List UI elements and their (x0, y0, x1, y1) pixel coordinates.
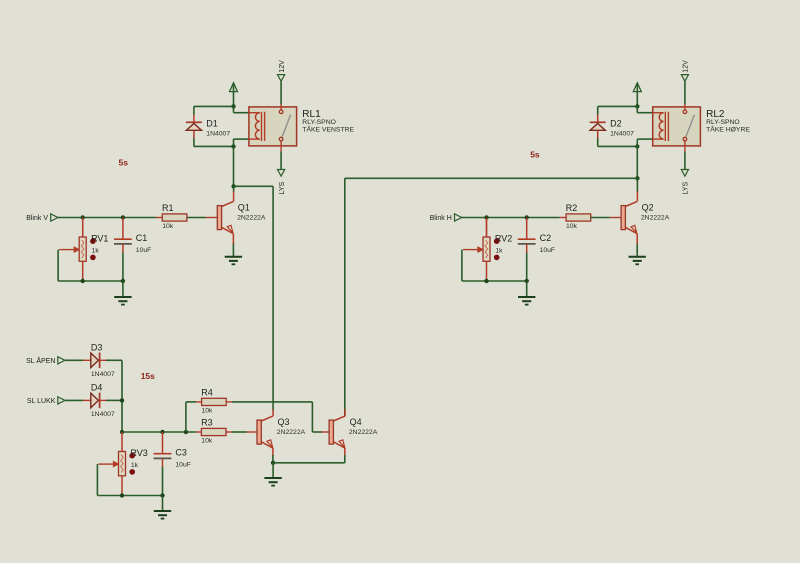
resistor R3 (201, 418, 226, 445)
pot RV3 1k body (119, 452, 126, 476)
svg-text:D1: D1 (206, 118, 218, 128)
pot RV3 pin bottom (121, 476, 123, 496)
svg-text:R2: R2 (566, 203, 578, 213)
junction RV3 bottom (120, 493, 124, 497)
svg-text:C1: C1 (136, 233, 148, 243)
wire coil top bend (637, 106, 652, 112)
junction collector node Q1 (231, 184, 235, 188)
pin Q2 emitter (636, 234, 638, 245)
svg-text:12V: 12V (279, 60, 286, 73)
wire top node to diode D2 (598, 105, 638, 107)
svg-text:2N2222A: 2N2222A (277, 429, 306, 436)
capacitor C1 pin bottom (122, 244, 124, 253)
capacitor C3 pin top (162, 432, 164, 454)
wire R3 to Q3 base (232, 431, 247, 433)
wire bottom rail RV2 (487, 280, 527, 282)
pin Q3 emitter (272, 448, 274, 456)
pin Q4 emitter (344, 448, 346, 456)
wire C2 bottom (526, 253, 528, 282)
junction collector node Q2 (635, 176, 639, 180)
pin R1 left (156, 217, 162, 219)
pin Q1 base (206, 217, 217, 219)
wire bottom rail RV1 (83, 280, 123, 282)
pot RV3 pin top (121, 432, 123, 452)
svg-text:TÅKE VENSTRE: TÅKE VENSTRE (302, 125, 354, 134)
ground below Q2 (629, 257, 646, 265)
pin R3 right (226, 431, 232, 433)
wire SL ÅPEN to D3 (65, 359, 83, 361)
relay RL1 switch (279, 104, 290, 152)
svg-text:D2: D2 (610, 118, 622, 128)
wire C3 bottom (162, 467, 164, 496)
svg-text:10k: 10k (201, 438, 213, 445)
diode D1 pin top (193, 106, 195, 122)
terminal 12V above RL1 (278, 60, 286, 104)
power terminal PWR RL2 (633, 83, 641, 107)
terminal LYS below RL1 (278, 152, 286, 195)
relay RL1 coil (249, 112, 265, 141)
svg-text:1N4007: 1N4007 (610, 130, 634, 137)
terminal LYS below RL2 (681, 152, 689, 195)
pot RV3 labels (130, 448, 147, 469)
power terminal PWR RL1 (230, 83, 238, 107)
wire R4 riser (186, 402, 196, 432)
wire Q3 emitter to ground node (272, 455, 274, 463)
svg-text:LYS: LYS (683, 181, 690, 194)
svg-text:Blink V: Blink V (26, 215, 48, 222)
svg-text:2N2222A: 2N2222A (237, 214, 266, 221)
junction bottom coil node RL1 (231, 144, 235, 148)
pin D4 cathode (100, 399, 106, 401)
wire RV2 top tap (486, 218, 488, 238)
svg-text:LYS: LYS (279, 181, 286, 194)
pin Q4 collector (344, 409, 346, 416)
wire Q4 emitter to emitter node (273, 455, 345, 463)
diode D2 pin top (597, 106, 599, 122)
relay RL2 labels (706, 109, 750, 134)
transistor Q1 2N2222A (217, 201, 266, 233)
svg-text:SL LUKK: SL LUKK (27, 398, 56, 405)
svg-text:5s: 5s (119, 157, 129, 167)
junction top node RL1 (231, 104, 235, 108)
diode D2 pin bottom (597, 130, 599, 146)
wire relay node down to collector node (636, 146, 638, 178)
junction bottom coil node RL2 (635, 144, 639, 148)
pin Q2 base (610, 217, 621, 219)
transistor Q2 2N2222A (621, 201, 670, 233)
wire to ground below C2 (526, 281, 528, 297)
pin Q1 emitter (232, 234, 234, 245)
svg-text:RLY-SPNO: RLY-SPNO (302, 119, 336, 126)
wire wiper loop of RV2 (462, 250, 487, 281)
relay RL2 coil (653, 112, 669, 141)
relay RL2 body (653, 107, 701, 146)
svg-text:Q1: Q1 (238, 202, 250, 212)
svg-text:RL2: RL2 (706, 109, 725, 120)
wire top node to diode D1 (194, 105, 234, 107)
pin D4 anode (83, 399, 91, 401)
pin D3 anode (83, 359, 91, 361)
wire RV1 top tap (82, 218, 84, 238)
svg-text:TÅKE HØYRE: TÅKE HØYRE (706, 125, 750, 134)
ground below C2 (518, 297, 535, 305)
junction C3 bottom (160, 493, 164, 497)
pin Q4 base (322, 431, 329, 433)
svg-text:5s: 5s (530, 149, 540, 159)
wire bottom node D2 to relay (598, 145, 638, 147)
ground below Q1 (225, 257, 242, 265)
svg-text:1N4007: 1N4007 (91, 371, 115, 378)
pot RV1 labels (91, 233, 108, 254)
wire collector node stub Q2 (636, 178, 638, 191)
wire to ground below C1 (122, 281, 124, 297)
svg-text:R1: R1 (162, 203, 174, 213)
svg-text:12V: 12V (683, 60, 690, 73)
svg-text:R4: R4 (201, 388, 213, 398)
pin Q3 collector (272, 409, 274, 416)
svg-text:RV1: RV1 (91, 233, 108, 243)
wire C1 bottom (122, 253, 124, 282)
terminal input SL LUKK (27, 397, 65, 405)
wire coil bottom bend (637, 139, 652, 146)
svg-text:15s: 15s (141, 371, 155, 381)
svg-text:2N2222A: 2N2222A (349, 429, 378, 436)
svg-text:1k: 1k (92, 247, 100, 254)
pot RV2 pin top (486, 218, 488, 238)
wire to ground below C3 (162, 496, 164, 512)
pot RV2 wiper arrow (463, 247, 483, 252)
pin Q3 base (247, 431, 257, 433)
wire 12V rail to relay RL2 region (0, 0, 1, 1)
pot RV1 1k body (79, 237, 86, 261)
wire Q1 emitter to ground (232, 244, 234, 257)
relay RL1 body (249, 107, 297, 146)
svg-text:10uF: 10uF (175, 461, 191, 468)
junction timing node (120, 430, 124, 434)
wire wiper loop of RV1 (58, 250, 83, 281)
wire Blink V to R1 (58, 217, 156, 219)
resistor R2 (566, 203, 591, 230)
wire Blink H to R2 (462, 217, 560, 219)
transistor Q4 2N2222A (329, 416, 378, 448)
wire R4 to Q4 base (232, 402, 322, 432)
relay RL2 switch (683, 104, 694, 152)
terminal input SL ÅPEN (26, 356, 65, 365)
svg-text:RLY-SPNO: RLY-SPNO (706, 119, 740, 126)
relay RL1 labels (302, 109, 354, 134)
junction C1 bottom (121, 279, 125, 283)
svg-text:Blink H: Blink H (430, 215, 452, 222)
svg-text:C3: C3 (175, 448, 187, 458)
wire bottom node D1 to relay (194, 145, 234, 147)
wire Q1 collector node to Q3 collector (234, 186, 274, 410)
resistor R4 (201, 388, 226, 415)
pin R4 left (196, 401, 202, 403)
svg-text:1k: 1k (495, 247, 503, 254)
pot RV1 pin bottom (82, 261, 84, 281)
diode D1 1N4007 (186, 118, 230, 137)
capacitor C3 pin bottom (162, 458, 164, 467)
wire R1 to Q1 base (187, 217, 206, 219)
svg-text:Q3: Q3 (278, 417, 290, 427)
wire collector node stub Q1 (233, 186, 235, 191)
junction C1 tap (121, 215, 125, 219)
wire SL LUKK to D4 (65, 399, 83, 401)
svg-text:1N4007: 1N4007 (91, 411, 115, 418)
svg-text:10k: 10k (566, 223, 578, 230)
wire D4 to timing node (106, 399, 122, 401)
svg-text:1N4007: 1N4007 (206, 130, 230, 137)
capacitor C2 10uF (518, 233, 555, 254)
junction C2 bottom (525, 279, 529, 283)
pin R4 right (226, 401, 232, 403)
wire Q2 emitter to ground (636, 244, 638, 257)
wire Q4 collector to RL2 coil node (345, 178, 638, 416)
pin Q1 collector (233, 191, 235, 202)
svg-text:Q4: Q4 (350, 417, 362, 427)
resistor R1 (162, 203, 187, 230)
svg-text:10uF: 10uF (136, 247, 152, 254)
pin R2 left (560, 217, 566, 219)
capacitor C3 10uF (154, 448, 191, 469)
terminal input Blink H (430, 214, 462, 222)
terminal input Blink V (26, 214, 58, 222)
junction RV2 tap (484, 215, 488, 219)
svg-text:10k: 10k (202, 407, 214, 414)
pin R3 left (196, 431, 201, 433)
svg-text:RV2: RV2 (495, 233, 512, 243)
pot RV2 pin bottom (486, 261, 488, 281)
pot RV1 wiper arrow (59, 247, 79, 252)
capacitor C2 pin top (526, 218, 528, 240)
pot RV2 labels (495, 233, 512, 254)
diode D1 pin bottom (193, 130, 195, 146)
pot RV3 adjust buttons (129, 453, 135, 475)
diode D3 1N4007 (91, 342, 115, 377)
pin Q2 collector (636, 191, 638, 202)
diode D2 1N4007 (590, 118, 634, 137)
pot RV2 adjust buttons (494, 238, 500, 260)
pot RV1 pin top (82, 218, 84, 238)
svg-text:C2: C2 (540, 233, 552, 243)
svg-text:RV3: RV3 (130, 448, 147, 458)
svg-text:10k: 10k (162, 223, 174, 230)
junction RV1 bottom (81, 279, 85, 283)
terminal 12V above RL2 (681, 60, 689, 104)
junction emitter node (271, 461, 275, 465)
wire coil bottom bend (234, 139, 249, 146)
pin D3 cathode (100, 359, 106, 361)
svg-text:R3: R3 (201, 418, 213, 428)
capacitor C2 pin bottom (526, 244, 528, 253)
wire R2 to Q2 base (591, 217, 610, 219)
transistor Q3 2N2222A (257, 416, 306, 448)
junction RV1 tap (81, 215, 85, 219)
capacitor C1 10uF (114, 233, 151, 254)
junction D4 node (120, 398, 124, 402)
ground below Q3 Q4 (264, 478, 281, 486)
junction C3 tap (160, 430, 164, 434)
wire bottom rail RV3 (122, 495, 163, 497)
svg-text:SL ÅPEN: SL ÅPEN (26, 356, 55, 365)
ground below C3 (154, 511, 171, 519)
svg-text:Q2: Q2 (642, 202, 654, 212)
wire 12V rail to relay RL1 region (0, 0, 1, 1)
svg-text:D4: D4 (91, 383, 103, 393)
svg-text:10uF: 10uF (540, 247, 556, 254)
junction R4 tap (184, 430, 188, 434)
pot RV2 1k body (483, 237, 490, 261)
ground below C1 (114, 297, 131, 305)
junction top node RL2 (635, 104, 639, 108)
wire relay node down to collector node (233, 146, 235, 186)
pot RV3 wiper arrow (98, 462, 118, 467)
wire emitter node to ground (272, 463, 274, 478)
svg-text:2N2222A: 2N2222A (641, 214, 670, 221)
wire coil top bend (234, 106, 249, 112)
svg-text:1k: 1k (131, 462, 139, 469)
diode D4 1N4007 (91, 383, 115, 418)
wire D3 to timing node (106, 360, 122, 432)
wire timing rail (122, 431, 196, 433)
wire wiper loop of RV3 (97, 464, 122, 495)
pot RV3 top wire (0, 0, 1, 1)
svg-text:D3: D3 (91, 342, 103, 352)
junction RV2 bottom (484, 279, 488, 283)
svg-text:RL1: RL1 (302, 109, 321, 120)
capacitor C1 pin top (122, 218, 124, 240)
pot RV1 adjust buttons (90, 238, 96, 260)
junction C2 tap (525, 215, 529, 219)
